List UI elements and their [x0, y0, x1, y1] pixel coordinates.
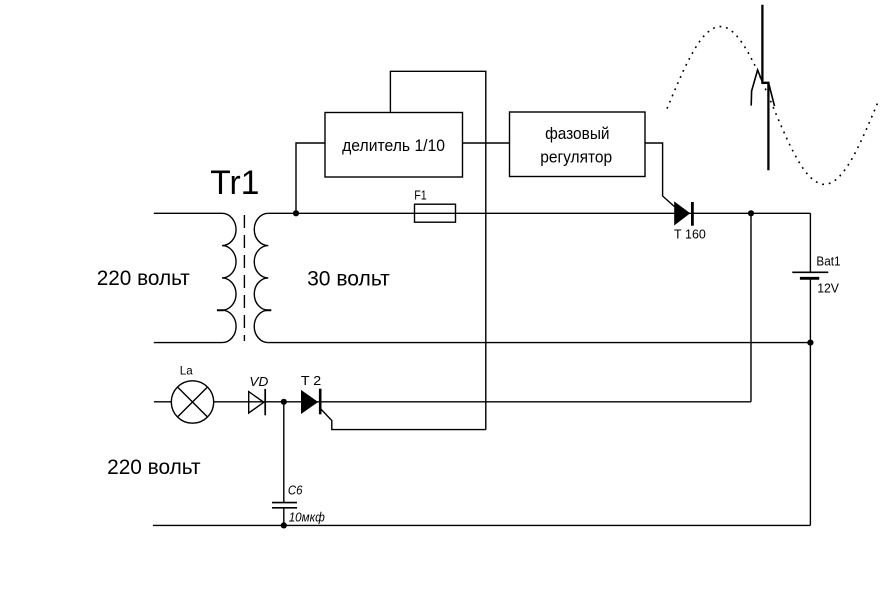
- capacitor C6 top plate: [272, 502, 297, 504]
- wire secondary top rail to right corner: [268, 212, 810, 214]
- transformer Tr1 primary winding: [222, 213, 236, 342]
- wire loop from divider top over to vertical feedback line: [390, 71, 485, 429]
- thyristor T2: [301, 389, 320, 415]
- svg-text:10мкф: 10мкф: [289, 509, 325, 524]
- battery Bat1 bottom plate: [800, 277, 819, 280]
- svg-text:фазовый: фазовый: [545, 124, 609, 143]
- node between VD and T2: [281, 399, 287, 405]
- transformer Tr1 primary top lead wire: [154, 212, 222, 214]
- node at secondary top / divider tap: [293, 210, 299, 216]
- wire battery negative down right rail: [809, 278, 811, 525]
- node capacitor C6 at bottom rail: [281, 522, 287, 528]
- svg-text:T 2: T 2: [301, 373, 321, 388]
- thyristor T2 gate wire: [321, 409, 486, 430]
- wire lamp row: [154, 401, 751, 403]
- transformer Tr1 primary winding tap tick: [217, 309, 224, 311]
- svg-text:VD: VD: [249, 374, 268, 389]
- waveform firing-step vertical line: [762, 5, 768, 171]
- svg-text:Tr1: Tr1: [210, 164, 259, 202]
- svg-text:La: La: [180, 364, 193, 378]
- svg-text:220 вольт: 220 вольт: [107, 456, 201, 479]
- wire branch from T160 node down to T2 anode row: [750, 213, 752, 401]
- lamp La: [171, 381, 213, 423]
- wire bottom rail: [153, 524, 811, 526]
- svg-text:Bat1: Bat1: [816, 254, 840, 268]
- svg-text:C6: C6: [288, 483, 303, 498]
- battery Bat1 top plate: [792, 271, 828, 273]
- box phase regulator фазовый регулятор: [510, 112, 646, 177]
- waveform dotted sine: [667, 27, 879, 185]
- node at battery negative and secondary bottom rail: [807, 340, 813, 346]
- svg-text:делитель 1/10: делитель 1/10: [342, 136, 445, 155]
- svg-text:F1: F1: [414, 189, 427, 203]
- svg-text:Т 160: Т 160: [674, 227, 706, 242]
- svg-text:регулятор: регулятор: [540, 148, 612, 167]
- svg-text:220 вольт: 220 вольт: [97, 267, 190, 290]
- transformer Tr1 secondary winding tap tick: [265, 309, 271, 311]
- wire right rail down to battery: [809, 213, 811, 272]
- capacitor C6 branch wire upper: [283, 402, 285, 503]
- fuse F1: [415, 204, 456, 222]
- waveform solid gate pulse: [751, 70, 774, 106]
- wire secondary bottom rail: [268, 342, 810, 344]
- box divider делитель 1/10: [325, 113, 463, 178]
- node at T160 cathode branch: [748, 210, 754, 216]
- wire divider output to phase regulator input: [463, 142, 510, 144]
- transformer Tr1 core: [243, 215, 245, 341]
- thyristor T160: [674, 201, 692, 225]
- transformer Tr1 secondary winding: [254, 213, 268, 342]
- svg-text:30 вольт: 30 вольт: [307, 268, 390, 291]
- diode VD: [249, 392, 264, 413]
- transformer Tr1 primary bottom lead wire: [154, 342, 222, 344]
- capacitor C6 bottom plate: [272, 507, 297, 509]
- capacitor C6 branch wire lower: [283, 508, 285, 526]
- svg-text:12V: 12V: [817, 280, 839, 295]
- wire phase regulator output to thyristor T160 gate: [645, 143, 674, 207]
- wire node at secondary top up to divider input: [296, 143, 325, 213]
